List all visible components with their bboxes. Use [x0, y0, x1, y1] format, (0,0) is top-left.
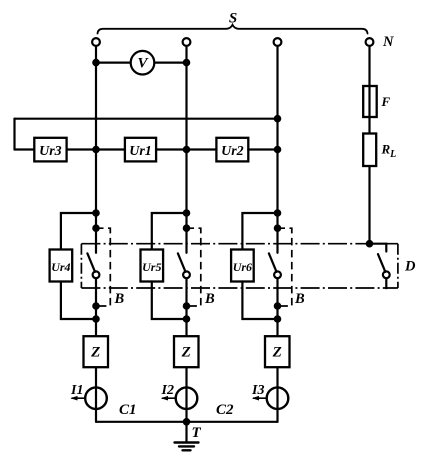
arrow I2	[163, 397, 176, 399]
terminal circle phase 3	[274, 38, 282, 46]
svg-text:D: D	[404, 259, 416, 275]
switch B1 contact	[93, 271, 100, 278]
svg-text:Z: Z	[181, 345, 191, 361]
node Ur row phase3	[275, 147, 280, 152]
node B2 top	[184, 226, 189, 231]
svg-text:F: F	[381, 94, 391, 109]
node B3 bottom	[275, 303, 280, 308]
svg-text:Z: Z	[90, 345, 100, 361]
switch B3 blade	[269, 253, 277, 271]
node phase2 branch top	[184, 210, 189, 215]
wire Ur loop top	[15, 118, 278, 120]
linkage dash-dot box top	[81, 243, 398, 245]
resistor Ur4	[50, 250, 73, 282]
switch B2 blade	[178, 253, 186, 271]
wire N vertical to fuse	[368, 46, 370, 117]
resistor Ur2	[216, 138, 248, 162]
svg-text:N: N	[382, 34, 394, 50]
brace S (top overbrace)	[98, 25, 368, 34]
node phase2 branch bottom	[184, 316, 189, 321]
fuse F	[363, 86, 377, 117]
wire Ur row segment 3	[156, 148, 216, 150]
wire Ur4 branch top	[61, 213, 96, 250]
ground bar 3	[183, 449, 191, 451]
svg-text:Ur3: Ur3	[39, 144, 62, 159]
svg-text:Z: Z	[272, 345, 282, 361]
node phase1 branch bottom	[93, 316, 98, 321]
node phase1 branch top	[93, 210, 98, 215]
svg-text:Ur4: Ur4	[51, 260, 70, 274]
wire phase1 vertical upper	[95, 46, 97, 253]
impedance Z1	[84, 336, 109, 367]
current source I3	[267, 387, 289, 409]
linkage dash-dot box left	[80, 244, 82, 288]
node Ur row phase2	[184, 147, 189, 152]
svg-text:C2: C2	[216, 402, 234, 418]
node B1 top	[93, 226, 98, 231]
switch B2 dashed box	[187, 228, 201, 306]
node V wire right	[184, 60, 189, 65]
switch B2 contact	[183, 271, 190, 278]
wire Ur6 branch top	[242, 213, 277, 250]
wire phase1 switch to Z	[95, 278, 97, 336]
svg-text:T: T	[192, 425, 202, 441]
wire phase2 vertical upper	[185, 46, 187, 253]
node D junction	[367, 241, 372, 246]
wire Ur loop left vertical	[13, 119, 15, 150]
ground bar 2	[179, 445, 194, 447]
svg-text:I2: I2	[161, 383, 174, 398]
wire Ur4 branch bottom	[61, 282, 96, 320]
wire Z2 to source	[185, 367, 187, 422]
switch B3 contact	[274, 271, 281, 278]
wire Z3 to source	[276, 367, 278, 422]
wire Ur row segment 2	[67, 148, 125, 150]
wire Z1 to source	[95, 367, 97, 422]
svg-text:Ur1: Ur1	[129, 144, 152, 159]
node phase3 branch bottom	[275, 316, 280, 321]
svg-text:S: S	[229, 11, 237, 27]
node B2 bottom	[184, 303, 189, 308]
resistor Ur1	[125, 138, 156, 162]
wire phase3 switch to Z	[276, 278, 278, 336]
wire phase2 switch to Z	[185, 278, 187, 336]
node B3 top	[275, 226, 280, 231]
switch B1 blade	[87, 253, 95, 271]
svg-text:Ur5: Ur5	[142, 260, 161, 274]
svg-text:B: B	[294, 291, 305, 307]
resistor RL	[363, 134, 376, 167]
wire RL to D	[368, 166, 370, 244]
wire D top contact	[370, 244, 387, 252]
impedance Z3	[265, 336, 290, 367]
ground bar 1	[175, 441, 199, 443]
switch D blade	[378, 254, 385, 272]
svg-text:I3: I3	[251, 383, 264, 398]
svg-text:Ur2: Ur2	[221, 144, 244, 159]
voltmeter V	[131, 51, 155, 75]
svg-text:C1: C1	[119, 402, 137, 418]
terminal circle N	[366, 38, 374, 46]
svg-text:B: B	[114, 291, 125, 307]
ground T stem	[185, 422, 187, 442]
linkage dash-dot box bottom	[81, 287, 398, 289]
wire phase3 vertical upper	[276, 46, 278, 253]
terminal circle phase 1	[92, 38, 100, 46]
node V wire left	[93, 60, 98, 65]
linkage dash-dot box right	[397, 244, 399, 288]
arrow I1	[72, 397, 85, 399]
svg-text:B: B	[204, 291, 215, 307]
resistor Ur5	[141, 250, 164, 282]
node phase3 branch top	[275, 210, 280, 215]
switch B3 dashed box	[278, 228, 292, 306]
svg-text:Ur6: Ur6	[233, 260, 252, 274]
node ground junction	[184, 419, 189, 424]
node Ur row phase1	[93, 147, 98, 152]
node top loop at phase3	[275, 116, 280, 121]
resistor Ur3	[34, 138, 66, 162]
node B1 bottom	[93, 303, 98, 308]
resistor Ur6	[231, 250, 254, 282]
wire Ur5 branch top	[152, 213, 187, 250]
wire Ur row segment 1	[15, 148, 35, 150]
wire Ur5 branch bottom	[152, 282, 187, 320]
switch D contact	[383, 271, 390, 278]
arrow I3	[254, 397, 267, 399]
svg-text:I1: I1	[70, 383, 83, 398]
impedance Z2	[174, 336, 199, 367]
current source I1	[85, 387, 107, 409]
terminal circle phase 2	[183, 38, 191, 46]
current source I2	[176, 387, 198, 409]
voltmeter wire	[96, 61, 187, 63]
wire D bottom	[385, 278, 387, 288]
switch B1 dashed box	[96, 228, 110, 306]
wire Ur6 branch bottom	[242, 282, 277, 320]
wire bottom bus	[96, 421, 278, 423]
wire Ur row segment 4	[248, 148, 277, 150]
wire fuse to RL	[368, 117, 370, 134]
